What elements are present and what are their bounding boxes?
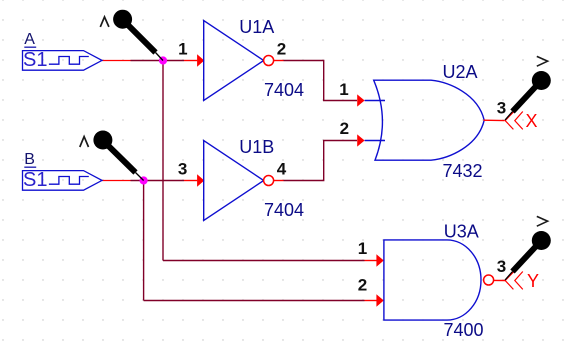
value label 7432 bbox=[443, 161, 483, 181]
value label 7404 (U1A) bbox=[264, 80, 304, 100]
inverter U1A output stub bbox=[274, 60, 284, 62]
output connector Y chevrons bbox=[505, 272, 523, 290]
or-gate U2A bbox=[374, 80, 485, 160]
wire net A to U3A pin 1 bbox=[163, 260, 365, 262]
pin number 2 (U2A) bbox=[340, 119, 349, 138]
inverter U1A output bubble bbox=[264, 56, 274, 66]
probe X caret bbox=[537, 56, 548, 66]
pin number 3 (U2A output) bbox=[497, 99, 506, 118]
svg-text:U3A: U3A bbox=[444, 222, 479, 242]
or-gate U2A pin 2 arrow bbox=[357, 134, 385, 146]
node label Y bbox=[527, 271, 539, 291]
svg-text:7404: 7404 bbox=[264, 200, 304, 220]
value label 7400 bbox=[444, 320, 484, 340]
value label 7404 (U1B) bbox=[264, 200, 304, 220]
svg-text:1: 1 bbox=[358, 239, 367, 258]
probe on net A bbox=[113, 10, 163, 61]
junction node A bbox=[159, 56, 167, 64]
inverter U1B bbox=[204, 141, 264, 221]
source S1 pin stub (net A) bbox=[102, 60, 131, 62]
pin number 4 (U1B output) bbox=[277, 159, 287, 178]
wire net B to U3A pin 2 bbox=[144, 300, 365, 302]
inverter U1B input pin with arrow bbox=[184, 174, 204, 187]
probe on net B bbox=[93, 131, 143, 181]
source S1 tag (input B) bbox=[23, 169, 103, 191]
svg-text:1: 1 bbox=[339, 80, 348, 99]
nand-gate U3A pin 1 with arrow bbox=[365, 254, 384, 267]
nand-gate U3A pin 2 with arrow bbox=[365, 294, 384, 307]
wire net B vertical drop from junction bbox=[143, 181, 145, 301]
node label B bbox=[24, 151, 36, 168]
source S1 pin stub (net B) bbox=[102, 180, 131, 182]
svg-text:2: 2 bbox=[340, 119, 349, 138]
svg-text:X: X bbox=[526, 111, 538, 131]
svg-text:3: 3 bbox=[178, 159, 187, 178]
pin number 1 (U2A) bbox=[339, 80, 348, 99]
inverter U1A input pin with arrow bbox=[184, 54, 204, 67]
pin number 2 (U1A output) bbox=[277, 39, 286, 58]
nand-gate U3A output stub bbox=[494, 279, 506, 281]
pin number 1 (U3A) bbox=[358, 239, 367, 258]
pin number 1 (U1A input) bbox=[178, 39, 187, 58]
inverter U1B output bubble bbox=[264, 176, 274, 186]
wire net B horizontal from source to U1B bbox=[131, 180, 185, 182]
svg-text:3: 3 bbox=[497, 99, 506, 118]
probe on net X bbox=[505, 71, 551, 120]
probe B caret bbox=[80, 137, 89, 147]
svg-text:S1: S1 bbox=[23, 49, 47, 71]
inverter U1A bbox=[204, 21, 264, 101]
junction node B bbox=[140, 176, 148, 184]
label U3A bbox=[444, 222, 479, 242]
svg-text:7432: 7432 bbox=[443, 161, 483, 181]
inverter U1B output stub bbox=[274, 180, 284, 182]
svg-text:B: B bbox=[24, 151, 35, 168]
pin number 2 (U3A) bbox=[358, 275, 367, 294]
or-gate U2A output stub bbox=[484, 119, 505, 121]
label U1B bbox=[239, 137, 274, 157]
probe Y caret bbox=[537, 216, 548, 226]
wire U1B output to U2A pin 2 bbox=[284, 141, 358, 181]
svg-text:U2A: U2A bbox=[443, 62, 478, 82]
svg-text:7400: 7400 bbox=[444, 320, 484, 340]
wire net A horizontal from source to U1A bbox=[131, 60, 185, 62]
svg-text:3: 3 bbox=[497, 257, 506, 276]
svg-text:U1B: U1B bbox=[239, 137, 274, 157]
svg-text:S1: S1 bbox=[23, 169, 47, 191]
or-gate U2A pin 1 arrow bbox=[357, 94, 385, 106]
svg-text:1: 1 bbox=[178, 39, 187, 58]
pin number 3 (U1B input) bbox=[178, 159, 187, 178]
nand-gate U3A bbox=[384, 240, 481, 320]
label U2A bbox=[443, 62, 478, 82]
node label X bbox=[526, 111, 538, 131]
label U1A bbox=[239, 17, 274, 37]
svg-text:A: A bbox=[24, 31, 35, 48]
nand-gate U3A output bubble bbox=[484, 275, 494, 285]
svg-text:7404: 7404 bbox=[264, 80, 304, 100]
svg-text:2: 2 bbox=[358, 275, 367, 294]
svg-text:Y: Y bbox=[527, 271, 539, 291]
output connector X chevrons bbox=[505, 112, 523, 130]
svg-text:2: 2 bbox=[277, 39, 286, 58]
node label A bbox=[24, 31, 36, 48]
probe on net Y bbox=[505, 231, 551, 280]
source S1 tag (input A) bbox=[23, 49, 103, 71]
probe A caret bbox=[100, 17, 109, 27]
svg-text:4: 4 bbox=[277, 159, 287, 178]
svg-text:U1A: U1A bbox=[239, 17, 274, 37]
pin number 3 (U3A output) bbox=[497, 257, 506, 276]
wire U1A output to U2A pin 1 bbox=[284, 61, 358, 101]
wire net A vertical drop from junction bbox=[162, 61, 164, 261]
